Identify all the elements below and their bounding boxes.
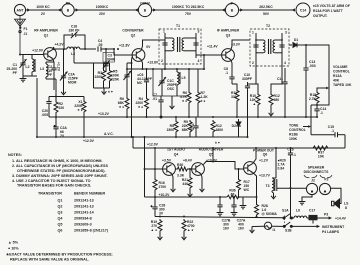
connector P2 [319,183,330,194]
wire AVC bus [38,136,248,138]
svg-text:3.3K: 3.3K [177,174,185,178]
transistor Q5 [192,163,205,176]
svg-text:L3: L3 [40,67,44,71]
transformer T1 dashed can [159,29,201,64]
resistor R10 [256,93,260,107]
resistor R9 22K 68K between buses [188,120,192,134]
svg-text:L2: L2 [26,65,30,69]
svg-text:± ●: ± ● [201,99,206,103]
wire C5 column from rail [146,69,148,78]
svg-text:TONE: TONE [289,124,299,128]
svg-text:100K: 100K [289,137,298,141]
wire Q2 base from rail [114,49,132,55]
svg-text:Q2: Q2 [58,205,63,209]
svg-text:2091241-13: 2091241-13 [74,205,94,209]
svg-text:@ SIGMA: @ SIGMA [262,212,278,216]
svg-text:8: 8 [345,206,347,210]
capacitor C2A variable tuning [60,49,68,89]
resistor R2 220 [54,101,58,115]
wire ANT to RF [26,9,62,11]
svg-text:68K: 68K [182,128,189,132]
capacitor C6 oscillator variable [124,63,132,97]
svg-text:± ●: ± ● [182,99,187,103]
ground below tank [20,76,27,82]
svg-text:680: 680 [274,98,280,102]
wire battery feed vertical [290,188,292,218]
svg-text:+8.4V: +8.4V [183,159,193,163]
svg-text:± ●: ± ● [108,90,113,94]
svg-text:2090934-8: 2090934-8 [74,217,92,221]
svg-text:L5: L5 [182,76,186,80]
ground arrow under C2A [61,89,66,95]
svg-text:Q4: Q4 [174,153,179,157]
svg-text:BENDIX NUMBER: BENDIX NUMBER [74,192,105,196]
svg-text:4: 4 [198,59,200,63]
resistor R6a 4.7K [187,91,191,105]
ground arrow bias box [102,89,107,95]
svg-text:+13.7V: +13.7V [259,174,271,178]
potentiometer R13B [303,105,311,135]
ground arrow under R12 [270,107,272,111]
svg-text:● 10%: ● 10% [8,247,19,251]
dashed gang link S1A S1B [283,216,285,225]
wire T3 primary feed [275,148,277,178]
svg-text:220K: 220K [111,78,120,82]
wire Q2 collector up [141,44,142,51]
svg-text:.01: .01 [152,97,157,101]
svg-text:180 PF: 180 PF [69,29,80,33]
svg-text:F1: F1 [24,27,28,31]
svg-text:1000 KC: 1000 KC [36,5,50,9]
svg-text:Q5: Q5 [58,223,63,227]
svg-text:Q1: Q1 [44,34,49,38]
resistor R17 150 thermistor [238,169,240,178]
T1 primary winding [165,33,174,58]
wire Q2 base to AVC column [131,57,134,137]
svg-text:Q3: Q3 [58,211,63,215]
svg-text:.05: .05 [189,127,194,131]
svg-text:REPLACE WITH SAME VALUE AS ORI: REPLACE WITH SAME VALUE AS ORIGINAL. [10,258,89,262]
transformer T2 dashed can [250,29,289,66]
svg-text:10K: 10K [318,155,325,159]
svg-text:PF: PF [13,71,17,75]
node CONV injection circle [138,3,151,16]
svg-text:P4 LAMPS: P4 LAMPS [322,230,340,234]
wire Q5 emitter ground [201,173,202,186]
ground bar under J2 [302,195,312,199]
svg-text:MOM: MOM [68,81,76,85]
resistor R15 2.7K [315,91,319,105]
T1 core [177,37,179,52]
svg-text:OUTPUT.: OUTPUT. [313,14,328,18]
svg-text:S1A: S1A [282,209,289,213]
svg-text:2V: 2V [41,12,46,16]
T1 secondary winding [182,33,196,58]
resistor R11 330 [235,89,239,103]
svg-text:50V: 50V [263,12,270,16]
svg-text:C14: C14 [300,8,306,12]
wire RF to CONV [74,9,138,11]
resistor R7a 1.2K [196,91,200,105]
node AF output circle [296,3,310,17]
svg-text:D1: D1 [294,38,298,42]
svg-text:INSTRUMENT: INSTRUMENT [322,225,345,229]
resistor R1 220K [82,100,86,114]
connector F1 J1 [19,27,21,29]
wire antenna to Q1 base [20,54,44,56]
resistor R22 4700 [182,219,186,233]
resistor R4 2200 [145,97,149,111]
svg-text:★EXACT VALUE DETERMINED BY PRO: ★EXACT VALUE DETERMINED BY PRODUCTION PR… [6,252,113,257]
capacitor C1 variable [20,55,27,77]
capacitor T2 secondary cap [279,45,284,47]
svg-text:±15 VOLTS AT ARM OF: ±15 VOLTS AT ARM OF [313,4,350,8]
svg-text:C17: C17 [309,209,315,213]
braces [304,175,317,178]
svg-text:± ●: ± ● [215,141,220,145]
svg-text:OSC: OSC [167,87,175,91]
svg-text:+4.2V: +4.2V [55,43,65,47]
wire Q2 collector to T1 [143,40,166,44]
svg-text:MC: MC [137,81,143,85]
wire node to bias [203,55,205,69]
svg-text:TRANSISTOR BASES FOR GAIN CHEC: TRANSISTOR BASES FOR GAIN CHECKS. [17,184,91,188]
svg-text:+14.4V: +14.4V [335,217,347,221]
svg-text:1000KC TO 262.5KC: 1000KC TO 262.5KC [172,5,205,9]
wire emitter cluster to ground rail [53,79,55,90]
svg-text:440: 440 [182,182,188,186]
inductor L4 [67,47,80,49]
wire L4 tap down [73,49,75,63]
wire Q2 emitter down [141,59,142,69]
wire +12V vertical feed [144,137,146,197]
svg-text:Q6: Q6 [263,153,268,157]
svg-text:20V: 20V [99,12,106,16]
svg-text:J2: J2 [311,179,315,183]
svg-text:1ST AUDIO: 1ST AUDIO [167,148,185,152]
svg-text:CONTROL: CONTROL [333,70,350,74]
svg-text:OTHERWISE STATED. PF (MICROM: OTHERWISE STATED. PF (MICROMICROFARADS). [17,169,106,173]
svg-text:2700: 2700 [159,185,167,189]
svg-text:L6: L6 [296,209,300,213]
svg-text:+12.0V: +12.0V [83,139,95,143]
transistor Q4 [163,163,176,176]
resistor R12a 4800 [211,120,215,134]
wire main rail y49 Q1 to C4 [54,48,67,50]
resistor R5 220K [108,69,112,83]
junction dots on buses [257,116,259,118]
svg-text:Q6: Q6 [58,229,63,233]
svg-text:RF AMPLIFIER: RF AMPLIFIER [34,29,58,33]
svg-text:± ●: ± ● [138,105,143,109]
wire T2 to diode [289,44,292,46]
svg-text:2091241-13: 2091241-13 [74,199,94,203]
capacitor C13 [303,66,308,117]
node RF injection circle [62,4,74,16]
svg-text:1: 1 [163,30,165,34]
svg-text:Q2: Q2 [131,34,136,38]
terminal P3 [329,216,332,219]
capacitor C18 variable in loop [64,32,85,49]
svg-text:TAPED 10K: TAPED 10K [333,83,352,87]
wire volume wiper to R15 [317,88,322,91]
svg-text:3: 3 [198,30,200,34]
T2 core [268,39,270,54]
svg-text:+12.0V: +12.0V [32,49,44,53]
lamp I1 [252,222,272,229]
svg-text:T3: T3 [266,184,270,188]
svg-text:R13A: R13A [333,74,342,78]
svg-text:+1.2V: +1.2V [57,62,61,72]
capacitor C1C variable osc [159,69,167,96]
wire tone to R37 rail [344,135,346,148]
node IF injection circle [225,3,238,16]
wire oscillator rail y69 [127,68,204,70]
svg-text:+12.0V: +12.0V [147,143,159,147]
wire bias box left side [93,63,95,88]
capacitor T1 primary cap [162,43,167,45]
svg-text:NOTES:: NOTES: [8,153,22,157]
wire +13.2V bus [49,116,317,118]
speaker LS [332,199,340,208]
svg-text:+1.2V: +1.2V [259,159,269,163]
capacitor T1 secondary cap [193,43,198,45]
svg-text:R13A FOR 1 WATT: R13A FOR 1 WATT [313,9,344,13]
wire left vertical from tank [36,78,38,137]
capacitor C2 510PF on Q1 emitter [51,66,56,72]
wire P2 to speaker [331,188,341,203]
wire bias box bottom [94,87,110,89]
svg-text:262.5KC: 262.5KC [259,5,273,9]
node ANT injection circle [14,4,25,15]
svg-text:▲ 5%: ▲ 5% [8,241,19,245]
wire Q3 emitter down [231,59,232,75]
svg-text:+13.2V: +13.2V [98,112,110,116]
svg-text:2V: 2V [60,134,65,138]
inductor L5 [177,69,180,96]
svg-text:.1: .1 [225,71,228,75]
svg-text:± ●: ± ● [78,108,83,112]
svg-text:1. ALL RESISTANCE IN OHMS, K: 1. ALL RESISTANCE IN OHMS, K 1000, M MEG… [12,159,103,163]
T2 secondary [273,33,282,60]
antenna symbol [15,16,26,55]
wire R36 horizontal [227,195,239,199]
svg-text:IF AMPLIFIER: IF AMPLIFIER [217,29,240,33]
transistor Q2 [132,49,145,62]
resistor R6 68K [125,97,129,111]
arrowheads on signal row [27,8,30,11]
svg-text:.005: .005 [41,113,48,117]
svg-text:T2: T2 [266,24,270,28]
wire tank bottom rail [23,75,37,77]
svg-text:TRANSISTOR: TRANSISTOR [38,192,62,196]
svg-text:A.V.C.: A.V.C. [104,132,114,136]
svg-text:Q1: Q1 [58,199,63,203]
svg-text:+3.5V: +3.5V [162,159,172,163]
wire IF to AF [239,9,295,11]
svg-text:+13.8V: +13.8V [147,60,159,64]
svg-text:.003: .003 [309,64,316,68]
svg-text:1500: 1500 [166,128,174,132]
svg-text:IF: IF [230,1,233,5]
svg-text:RF: RF [66,1,71,5]
svg-text:0V: 0V [146,45,151,49]
svg-text:2: 2 [161,59,163,63]
wire Q4 emitter ground [172,173,173,186]
svg-text:3V: 3V [159,212,164,216]
svg-text:+11.4V: +11.4V [207,45,218,49]
wire Q1 emitter leg [53,58,54,62]
svg-text:R13B: R13B [289,133,298,137]
svg-text:▲ ●: ▲ ● [151,228,157,232]
svg-text:CONTROL: CONTROL [289,128,306,132]
svg-text:▲: ▲ [253,102,256,106]
wire D1 node to volume [306,45,329,84]
svg-text:R30: R30 [177,163,183,167]
svg-text:4: 4 [284,61,286,65]
wire Q4 base [145,168,163,170]
svg-text:2.7K: 2.7K [309,97,317,101]
svg-text:S1B: S1B [285,229,292,233]
wire bias box top rail [74,62,110,64]
ground bar near R17 [242,197,244,203]
wire decoupling top [145,196,228,198]
svg-text:J1: J1 [24,32,28,36]
wire CONV to IF [152,9,225,11]
svg-text:.1: .1 [320,111,323,115]
inductor L3 emitter choke [46,62,54,79]
svg-text:4800: 4800 [216,128,224,132]
transistor Q1 [44,48,57,61]
svg-text:4. USE J CAPACITOR TO INJECT: 4. USE J CAPACITOR TO INJECT SIGNAL TO [12,179,91,183]
inductor L2 antenna coil [32,55,35,77]
svg-text:2200: 2200 [94,75,102,79]
svg-text:1000KC: 1000KC [96,5,109,9]
wire volume pot bottom to tone pot [311,104,329,105]
svg-text:16V: 16V [238,227,245,231]
ground arrow under T3 [271,193,276,199]
svg-text:Q3: Q3 [226,34,231,38]
wire audio top rail y148 [133,147,345,149]
transistor Q6 [244,162,257,175]
wire T3 to J2 [277,187,307,189]
svg-text:P2: P2 [324,178,328,182]
resistor R16 2700 [153,178,157,192]
resistor R3 2200 [102,69,106,83]
svg-text:2091859-8 (2N1217): 2091859-8 (2N1217) [74,229,109,233]
svg-text:SPEAKER: SPEAKER [308,166,325,170]
svg-text:I1: I1 [273,228,276,232]
terminal P4 instrument lamps [317,225,320,228]
svg-text:VOLUME: VOLUME [333,65,348,69]
ground arrow oscillator [170,103,175,109]
svg-text:AUDIO DRIVER: AUDIO DRIVER [199,148,224,152]
T2 primary [256,33,265,60]
svg-text:+11.8V: +11.8V [119,44,130,48]
wire T1 sec to Q3 base [196,52,222,55]
oscillator can outline [153,69,189,96]
svg-text:2. ALL CAPACITANCE IN UF (MIC: 2. ALL CAPACITANCE IN UF (MICROFARADS) U… [12,164,108,168]
wire D1 node down [305,45,307,66]
resistor R19 270 [158,219,162,233]
svg-text:T1: T1 [176,24,180,28]
svg-text:▲ ●: ▲ ● [187,228,193,232]
wire lower bus y216 [155,217,284,218]
wire osc box bottom to ground [171,96,173,103]
transistor Q3 [222,49,235,62]
svg-text:ANT: ANT [17,8,25,12]
svg-text:2091241-14: 2091241-14 [74,211,95,215]
resistor R12 680 [269,93,273,107]
svg-text:0.84: 0.84 [278,167,285,171]
resistor R21 440 [189,169,191,176]
svg-text:± ●: ± ● [119,105,124,109]
svg-text:.1: .1 [331,129,334,133]
svg-text:220: 220 [59,106,65,110]
svg-text:3: 3 [285,31,287,35]
svg-text:.004R: .004R [106,58,116,62]
svg-text:D2: D2 [232,124,236,128]
svg-text:CONVERTER: CONVERTER [122,29,144,33]
svg-text:CONV: CONV [140,1,151,5]
svg-text:P3: P3 [324,213,328,217]
connector J2 [306,183,317,194]
svg-text:2092609-3: 2092609-3 [74,223,92,227]
wire Q5 collector right [203,162,243,170]
svg-text:2: 2 [252,61,254,65]
resistor R28 1.6 [256,197,258,203]
wire Q6 emitter down [253,172,257,197]
ground arrow bottom [250,227,255,233]
capacitor C5 [144,78,149,84]
wire T1 bottoms [164,58,166,69]
svg-text:75V: 75V [185,12,192,16]
svg-text:DISCONNECTS: DISCONNECTS [304,170,329,174]
capacitor C3 trimmer below rail [103,49,110,72]
svg-text:LS: LS [344,202,349,206]
svg-text:40K: 40K [333,79,340,83]
svg-text:.1: .1 [293,153,296,157]
resistor R8 1500 between buses [174,120,178,134]
wire Q3 collector up to T2 [231,40,250,51]
svg-text:330PF: 330PF [242,77,252,81]
svg-text:3. DUMMY ANTENNA: 20PF SERIE: 3. DUMMY ANTENNA: 20PF SERIES AND 20PF S… [12,174,108,178]
svg-text:1: 1 [252,31,254,35]
svg-text:330: 330 [231,95,237,99]
svg-text:16V: 16V [223,227,230,231]
svg-text:+10.2V: +10.2V [159,193,171,197]
capacitor C14 .1 [314,105,319,117]
svg-text:WC: WC [244,188,250,192]
potentiometer R13A [322,84,329,104]
wire Q1 emitter column [54,78,56,80]
capacitor T2 primary cap [253,45,258,47]
wire Q1 collector to rail [53,47,54,50]
